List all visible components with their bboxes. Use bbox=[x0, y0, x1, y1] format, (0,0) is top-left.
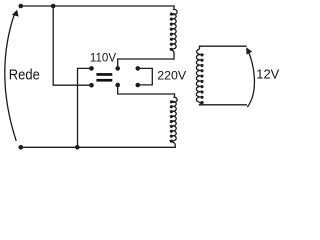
node B (top mid) bbox=[51, 4, 56, 9]
arrowhead for Rede arrow bbox=[12, 10, 19, 17]
wire: bottom tap horizontal bbox=[118, 85, 175, 94]
transformer primary lower winding L2 bbox=[170, 94, 177, 147]
wire: top tap horizontal bbox=[118, 59, 174, 68]
arrowhead for 12V arrow bbox=[246, 47, 252, 54]
terminal 110V upper bbox=[89, 66, 94, 71]
jumper bar J2 (110V strap, lower) bbox=[96, 79, 112, 82]
wire: bottom mains line bbox=[21, 146, 175, 148]
terminal 220V lower-right bbox=[136, 83, 141, 88]
svg-text:Rede: Rede bbox=[9, 66, 40, 83]
node A (top-left) bbox=[19, 4, 24, 9]
terminal 220V upper-right bbox=[136, 66, 141, 71]
arrow arc for Rede (mains) bbox=[5, 14, 16, 141]
arrow arc for 12V output bbox=[247, 50, 254, 107]
wire: vertical from upper 110V terminal down to bottom line bbox=[78, 68, 92, 147]
wire: left vertical from top node down then right to lower 110V terminal bbox=[53, 6, 91, 85]
svg-text:110V: 110V bbox=[90, 51, 116, 64]
terminal 220V upper-left bbox=[115, 66, 120, 71]
wire: secondary bottom lead bbox=[200, 104, 247, 106]
node D (bottom junction) bbox=[75, 145, 80, 150]
jumper bar J1 (110V strap, upper) bbox=[96, 73, 112, 76]
node C (bottom-left) bbox=[19, 145, 24, 150]
transformer secondary winding L3 bbox=[196, 46, 203, 105]
svg-text:220V: 220V bbox=[157, 69, 187, 83]
svg-text:12V: 12V bbox=[256, 67, 279, 82]
jumper bracket (220V strap) bbox=[138, 68, 153, 85]
terminal 110V lower bbox=[89, 83, 94, 88]
transformer primary upper winding L1 bbox=[170, 6, 177, 59]
wire: top mains line bbox=[21, 5, 174, 7]
wire: secondary top lead bbox=[200, 45, 247, 47]
terminal 220V lower-left bbox=[115, 83, 120, 88]
